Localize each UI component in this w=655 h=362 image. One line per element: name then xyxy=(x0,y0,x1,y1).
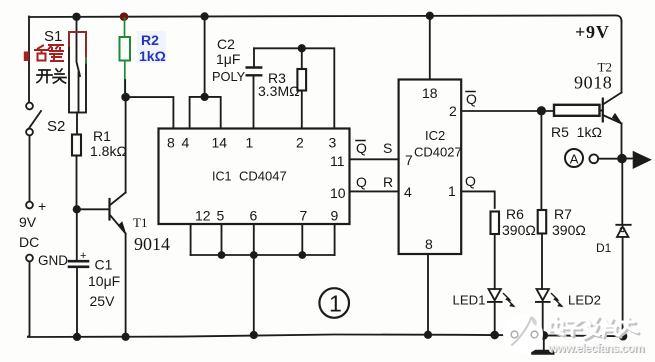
wire IC1 pin7 stub xyxy=(301,224,303,255)
svg-text:9: 9 xyxy=(331,208,339,224)
wire T1 collector up to R2 node xyxy=(125,97,127,192)
wire A node to arrow xyxy=(622,158,632,160)
wire IC1 pin1 to C2 xyxy=(253,75,255,128)
wire IC2 pin8 to bottom rail xyxy=(427,254,429,337)
wire IC1 pin12 stub xyxy=(190,224,192,255)
svg-text:+: + xyxy=(38,198,46,214)
wire A node down to D1 xyxy=(621,159,623,225)
wire node to R3 xyxy=(301,48,303,69)
node output terminal circle xyxy=(589,154,598,163)
svg-text:11: 11 xyxy=(330,153,345,169)
wire R7 to LED2 xyxy=(541,234,543,290)
label S1 chinese red (reed) xyxy=(25,45,63,61)
wire base node to C1 xyxy=(76,209,78,261)
svg-text:1.8kΩ: 1.8kΩ xyxy=(90,143,127,159)
svg-text:LED2: LED2 xyxy=(568,293,601,308)
svg-text:C2: C2 xyxy=(217,36,235,52)
svg-text:Q: Q xyxy=(465,173,476,189)
wire T1 emitter to bottom rail xyxy=(125,234,127,337)
junction base node xyxy=(74,206,80,212)
junction S1 top xyxy=(73,13,80,20)
svg-text:C1: C1 xyxy=(95,257,113,273)
svg-text:1: 1 xyxy=(448,183,456,199)
svg-text:10: 10 xyxy=(330,185,346,201)
wire C1 to bottom rail xyxy=(76,267,78,337)
wire IC1 pin5 stub xyxy=(221,224,223,255)
svg-text:R2: R2 xyxy=(141,32,159,48)
wire R1 to base node xyxy=(76,156,78,210)
svg-text:14: 14 xyxy=(212,135,228,151)
node GND terminal xyxy=(26,255,33,262)
wire R7 tap down to R7 xyxy=(540,111,542,210)
wire R6 to LED1 xyxy=(494,234,496,289)
reed switch S1 envelope xyxy=(69,32,86,113)
junction R7 tap xyxy=(538,107,545,114)
wire bottom ground rail xyxy=(28,335,623,338)
IC1 CD4047 box xyxy=(159,129,350,225)
svg-text:Q: Q xyxy=(356,140,367,156)
svg-text:IC1: IC1 xyxy=(212,170,232,184)
svg-text:9014: 9014 xyxy=(134,234,170,254)
resistor R6 body xyxy=(491,212,500,235)
wire IC1 pin10 to IC2 pin4 xyxy=(350,190,399,192)
svg-text:5: 5 xyxy=(217,208,225,224)
svg-text:390Ω: 390Ω xyxy=(502,222,536,238)
svg-text:1μF: 1μF xyxy=(216,51,240,67)
svg-text:GND: GND xyxy=(38,253,68,268)
resistor R3 body xyxy=(297,69,306,91)
wire C2 to RC node xyxy=(253,48,255,67)
svg-text:4: 4 xyxy=(404,184,412,200)
svg-text:+9V: +9V xyxy=(575,22,610,42)
svg-text:12: 12 xyxy=(195,208,211,224)
wire pin4-14 tie bar xyxy=(190,97,221,129)
svg-text:2: 2 xyxy=(296,135,304,151)
svg-text:2: 2 xyxy=(449,103,457,119)
wire IC1 bottom bus xyxy=(191,254,335,256)
wire A node left to terminal xyxy=(598,158,622,160)
svg-text:IC2: IC2 xyxy=(425,128,445,143)
wire GND terminal to bottom rail xyxy=(28,262,30,337)
reed switch S1 contacts xyxy=(77,32,81,113)
svg-text:POLY: POLY xyxy=(212,69,246,84)
wire R2 node to IC1 pin8 xyxy=(126,97,174,128)
svg-text:390Ω: 390Ω xyxy=(552,222,586,238)
svg-text:T1: T1 xyxy=(133,215,147,230)
wire LED1 to bottom rail xyxy=(494,302,496,337)
wire R2 lower (black part) xyxy=(124,80,126,97)
svg-text:8: 8 xyxy=(425,236,433,252)
svg-text:7: 7 xyxy=(300,208,308,224)
junction bus pin6 xyxy=(251,252,257,258)
svg-text:3: 3 xyxy=(329,135,337,151)
junction bus pin7 xyxy=(299,252,305,258)
svg-text:D1: D1 xyxy=(596,241,612,255)
diode D1 xyxy=(616,225,630,237)
watermark logo circle xyxy=(503,314,543,354)
resistor R5 body xyxy=(554,105,600,116)
transistor T2 xyxy=(603,93,622,124)
junction pin4-14 tie xyxy=(201,94,207,100)
wire T2 emitter down to A node xyxy=(621,124,623,159)
junction R3 top xyxy=(299,45,305,51)
junction LED2 rail xyxy=(540,332,547,339)
svg-text:Q: Q xyxy=(356,174,367,190)
ground symbol xyxy=(534,337,552,353)
wire RC node bar pin3 xyxy=(254,48,334,128)
capacitor C2 plates xyxy=(247,68,262,76)
junction D1 rail end xyxy=(620,333,627,340)
wire base node to T1 base xyxy=(77,208,110,210)
svg-text:S1: S1 xyxy=(44,28,62,45)
svg-text:9V: 9V xyxy=(19,214,37,230)
junction C1 rail xyxy=(74,334,80,340)
svg-text:1: 1 xyxy=(329,291,342,317)
wire S2 to + terminal xyxy=(29,136,31,202)
junction R2 bottom node xyxy=(122,94,129,101)
label switch chinese black xyxy=(37,69,66,83)
meter A circle xyxy=(565,149,583,167)
wire LED2 to bottom rail xyxy=(542,302,544,337)
junction rail IC2 xyxy=(427,13,433,19)
svg-text:25V: 25V xyxy=(90,293,116,309)
node + supply terminal xyxy=(26,202,33,209)
wire R5 to T2 base xyxy=(600,110,603,112)
junction IC2 pin8 rail xyxy=(425,332,431,338)
svg-text:R: R xyxy=(383,174,393,190)
wire IC2 pin1 to R6 xyxy=(461,191,495,208)
svg-text:10μF: 10μF xyxy=(88,273,120,289)
svg-text:LED1: LED1 xyxy=(453,293,486,308)
wire rail to IC2 top xyxy=(429,17,431,80)
switch S2 xyxy=(26,103,41,136)
svg-text:www.elecfans.com: www.elecfans.com xyxy=(547,341,644,355)
node figure label circle 1 xyxy=(319,288,349,318)
svg-text:3.3MΩ: 3.3MΩ xyxy=(258,83,300,99)
wire rail to C2/pin4-14 node xyxy=(204,17,206,97)
svg-text:18: 18 xyxy=(422,85,438,101)
wire IC1 pin11 to IC2 pin7 xyxy=(350,158,399,160)
wire D1 to bottom rail xyxy=(622,237,624,337)
junction T1 emitter rail xyxy=(122,334,128,340)
svg-text:R6: R6 xyxy=(506,206,524,222)
svg-text:+: + xyxy=(80,250,86,262)
resistor R7 body xyxy=(538,210,547,234)
junction rail C2 xyxy=(201,13,207,19)
svg-text:DC: DC xyxy=(19,234,39,250)
LED1 xyxy=(488,289,515,307)
junction rail R2 (dark red) xyxy=(121,13,128,20)
LED2 xyxy=(536,289,563,307)
svg-text:4: 4 xyxy=(182,135,190,151)
wire left column from rail to S2 xyxy=(28,17,30,103)
svg-text:R7: R7 xyxy=(554,206,572,222)
wire IC1 pin9 stub xyxy=(334,224,336,255)
svg-text:7: 7 xyxy=(405,152,413,168)
wire S1 to R1 xyxy=(76,113,78,135)
resistor R1 body xyxy=(72,135,81,156)
red annotation reed switch xyxy=(69,32,86,63)
svg-text:A: A xyxy=(570,152,579,167)
wire R3 to IC1 pin2 xyxy=(301,91,303,129)
svg-text:CD4047: CD4047 xyxy=(239,169,287,184)
svg-text:8: 8 xyxy=(167,135,175,151)
arrow output xyxy=(634,152,651,168)
svg-text:9018: 9018 xyxy=(574,73,612,93)
svg-text:1kΩ: 1kΩ xyxy=(139,48,166,64)
watermark chinese elecfans xyxy=(550,317,639,340)
svg-text:R1: R1 xyxy=(93,128,111,144)
junction output node A xyxy=(618,155,626,163)
junction bus pin5 xyxy=(219,252,225,258)
wire IC1 pin6 stub xyxy=(253,224,255,255)
wire IC2 pin2 to R5 xyxy=(461,110,554,112)
wire top +9V rail xyxy=(29,15,622,21)
junction bus rail xyxy=(251,332,257,338)
svg-text:6: 6 xyxy=(250,208,258,224)
transistor T1 xyxy=(110,193,126,234)
capacitor C1 plates xyxy=(69,261,88,267)
svg-text:Q: Q xyxy=(466,91,477,107)
svg-text:1: 1 xyxy=(246,135,254,151)
svg-text:S: S xyxy=(383,140,392,156)
svg-text:S2: S2 xyxy=(47,118,65,135)
junction LED1 rail xyxy=(491,332,498,339)
IC2 CD4027 box xyxy=(399,80,462,255)
svg-text:CD4027: CD4027 xyxy=(414,145,462,160)
wire T2 collector to rail xyxy=(621,22,623,93)
svg-text:R5 1kΩ: R5 1kΩ xyxy=(551,124,602,140)
wire rail to reed switch S1 xyxy=(76,17,78,33)
resistor R2 (green) xyxy=(120,18,131,94)
label R2 value (blue) xyxy=(137,31,166,63)
wire bus to bottom rail xyxy=(253,255,255,337)
